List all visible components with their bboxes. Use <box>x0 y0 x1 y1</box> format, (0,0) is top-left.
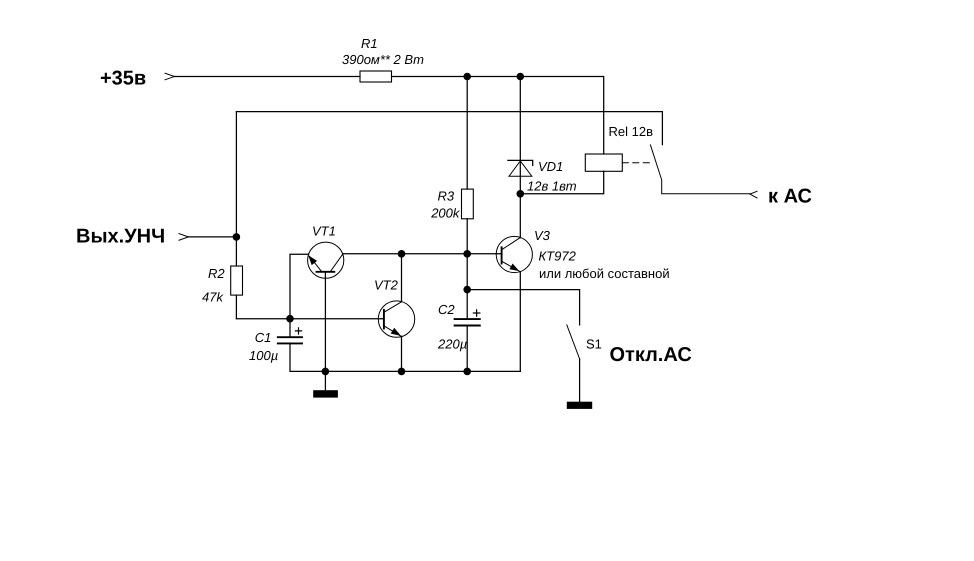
svg-text:VD1: VD1 <box>538 159 563 174</box>
svg-text:R2: R2 <box>208 266 225 281</box>
svg-text:220µ: 220µ <box>437 337 467 352</box>
svg-text:Вых.УНЧ: Вых.УНЧ <box>76 226 165 248</box>
svg-text:S1: S1 <box>586 336 602 351</box>
svg-text:47k: 47k <box>202 289 224 304</box>
svg-text:+35в: +35в <box>100 68 146 90</box>
svg-text:C2: C2 <box>438 302 455 317</box>
svg-text:VT2: VT2 <box>374 277 399 292</box>
svg-text:C1: C1 <box>255 330 272 345</box>
svg-text:R3: R3 <box>438 188 455 203</box>
svg-text:VT1: VT1 <box>312 224 336 239</box>
svg-text:Откл.АС: Откл.АС <box>610 344 692 366</box>
svg-text:200k: 200k <box>430 205 461 220</box>
svg-text:V3: V3 <box>534 228 551 243</box>
svg-text:12в 1вт: 12в 1вт <box>527 178 577 193</box>
svg-text:100µ: 100µ <box>249 348 278 363</box>
svg-text:КТ972: КТ972 <box>539 248 577 263</box>
svg-text:или любой составной: или любой составной <box>539 266 670 281</box>
svg-text:390ом** 2 Вт: 390ом** 2 Вт <box>342 52 424 67</box>
svg-text:R1: R1 <box>361 36 378 51</box>
svg-text:Rel 12в: Rel 12в <box>609 124 654 139</box>
svg-text:к АС: к АС <box>768 185 812 207</box>
